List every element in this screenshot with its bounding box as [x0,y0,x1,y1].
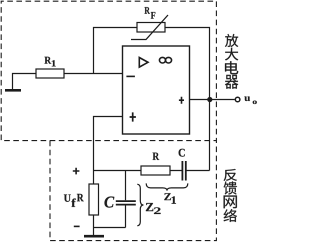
minus sign Uf polarity [74,225,80,227]
wire R1 to ground [13,74,37,90]
resistor R1 [36,69,64,78]
label feedback char 4 [224,209,237,222]
label Z2 [146,203,161,214]
label amplifier char 3 [225,61,238,74]
label amplifier char 1 [225,34,238,47]
label Z1 [164,193,176,204]
wire R1 to op-amp inverting input [64,73,123,75]
ground (feedback) [84,235,104,238]
wire bottom of C to R [94,227,126,229]
label C (Z1) [179,149,185,157]
label R1 [45,57,56,67]
wire node A up to RF [94,28,138,74]
amplifier dashed box [1,1,216,140]
label feedback char 2 [224,181,237,194]
label feedback char 1 [224,169,237,181]
ground [5,89,21,92]
wire non-inverting input down to feedback node [94,117,123,171]
op-amp triangle symbol [139,58,148,68]
resistor RF (thermistor symbol) [131,15,168,40]
capacitor C (Z1) [182,161,185,181]
brace Z2 [137,184,143,226]
label uo [244,97,256,104]
op-amp infinity gain symbol [159,57,171,63]
op-amp U1 [123,46,190,134]
wire to resistor R (Z2) [93,171,95,185]
label C (Z2) italic [104,196,114,207]
output terminal circle [235,97,240,102]
wire R bottom to ground [93,215,95,235]
op-amp inverting input minus sign [126,75,134,77]
capacitor C (Z2) [116,171,136,228]
feedback network dashed box [50,141,216,241]
resistor R (Z2) [89,184,99,215]
wire RF to output node [165,28,210,171]
plus sign Uf polarity [73,168,80,175]
label feedback char 3 [224,196,237,209]
wire op-amp output [190,99,235,101]
op-amp output plus sign [179,97,184,104]
brace Z1 [146,183,188,190]
label amplifier char 4 [225,75,238,89]
wire Z1 branch [94,170,210,172]
label amplifier char 2 [225,48,238,61]
label RF [145,7,156,18]
node junction dot [207,97,212,102]
label Uf R [64,194,84,207]
op-amp non-inverting input plus sign [130,112,136,121]
label R (Z1) [153,153,160,160]
resistor R (Z1) [141,166,170,175]
